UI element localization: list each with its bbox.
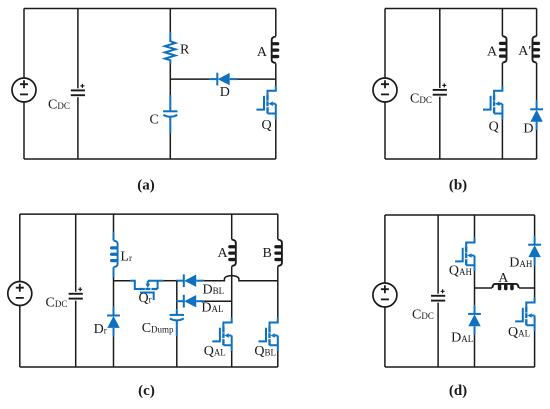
capacitor CDC (a) xyxy=(71,84,85,95)
wire: panel (b) right edge bottom xyxy=(536,130,538,159)
svg-text:(d): (d) xyxy=(449,383,467,399)
svg-text:R: R xyxy=(180,42,190,57)
wire: panel (d) phase wire left xyxy=(475,287,493,289)
diode Dr xyxy=(107,307,120,336)
wire: panel (b) A branch top xyxy=(501,9,503,36)
wire: panel (a) right edge top xyxy=(275,9,277,37)
wire: panel (b) left branch upper xyxy=(384,9,386,79)
wire: panel (a) bottom rail xyxy=(24,158,276,160)
wire: panel (a) right edge bottom xyxy=(275,119,277,159)
capacitor Cdump xyxy=(170,315,184,321)
wire: capacitor C top lead blue xyxy=(169,95,171,111)
wire: DAL row right black xyxy=(204,300,232,302)
wire: panel (b) right edge top xyxy=(536,9,538,36)
wire: panel (a) R branch top black xyxy=(169,9,171,33)
wire: panel (a) Cdc branch lower xyxy=(77,97,79,159)
svg-text:(b): (b) xyxy=(449,178,467,194)
svg-text:B: B xyxy=(263,246,272,261)
capacitor CDC (c) xyxy=(69,287,83,298)
capacitor CDC (d) xyxy=(431,289,445,300)
wire: Lr bottom lead blue xyxy=(113,267,115,277)
inductor A (a) xyxy=(272,37,280,64)
svg-text:A: A xyxy=(257,45,268,60)
mosfet Q (a) xyxy=(256,86,275,119)
wire: panel (c) B branch bottom xyxy=(277,351,279,367)
wire: Cdump branch bottom black xyxy=(176,336,178,367)
wire: panel (c) bottom rail xyxy=(20,366,278,368)
inductor B (c) xyxy=(274,240,282,267)
wire: Cdump bottom lead blue xyxy=(176,321,178,336)
voltage source V1 (d) xyxy=(373,283,397,307)
wire: junction row right black with hop over A branch xyxy=(204,276,278,281)
inductor Lr xyxy=(110,241,118,268)
svg-text:C: C xyxy=(150,112,159,127)
capacitor CDC (b) xyxy=(433,83,447,94)
capacitor C (a) xyxy=(163,111,177,117)
wire: panel (a) Cdc branch upper xyxy=(77,9,79,89)
wire: panel (b) A branch mid xyxy=(501,63,503,86)
wire: panel (b) left branch lower xyxy=(384,102,386,159)
svg-text:Q: Q xyxy=(489,120,499,135)
wire: panel (d) left branch lower xyxy=(384,307,386,367)
wire: panel (d) left branch upper xyxy=(384,215,386,283)
wire: panel (b) Cdc branch lower xyxy=(439,97,441,159)
wire: panel (d) Cdc branch lower xyxy=(437,303,439,367)
diode D (a) xyxy=(210,73,238,86)
svg-text:Q: Q xyxy=(262,118,272,133)
voltage source V1 (a) xyxy=(12,78,36,102)
wire: panel (d) mid branch bottom xyxy=(474,335,476,367)
wire: panel (d) phase wire right xyxy=(519,287,535,289)
wire: junction row left black xyxy=(114,280,131,282)
svg-text:A: A xyxy=(498,271,509,286)
wire: panel (d) Cdc branch upper xyxy=(437,215,439,294)
svg-text:A: A xyxy=(218,246,229,261)
wire: panel (a) top rail xyxy=(24,8,276,10)
wire: panel (d) top rail xyxy=(385,214,535,216)
wire: panel (c) top rail xyxy=(20,213,278,215)
wire: panel (c) B branch top xyxy=(277,214,279,239)
wire: panel (c) Cdc branch lower xyxy=(75,301,77,367)
wire: Cdump top lead blue xyxy=(176,309,178,314)
inductor A (d) xyxy=(492,284,519,290)
mosfet QAH (d) xyxy=(455,238,474,271)
wire: panel (a) mid wire right xyxy=(238,78,276,80)
mosfet Qr xyxy=(130,281,163,300)
wire: Lr top lead blue xyxy=(113,232,115,240)
inductor A (c) xyxy=(228,240,236,267)
svg-text:D: D xyxy=(220,85,230,100)
wire: panel (c) Lr branch top black xyxy=(113,214,115,232)
svg-text:A′: A′ xyxy=(518,44,531,59)
diode DAL (d) xyxy=(468,305,481,334)
voltage source V1 (b) xyxy=(373,78,397,102)
wire: panel (a) mid wire left xyxy=(170,78,210,80)
wire: panel (a) right edge mid xyxy=(275,63,277,86)
mosfet QBL (c) xyxy=(258,318,277,351)
wire: panel (a) R-C branch middle black xyxy=(169,65,171,96)
wire: panel (c) Cdc branch upper xyxy=(75,214,77,292)
diode D (b) xyxy=(530,101,543,130)
wire: panel (d) right edge middle xyxy=(534,265,536,297)
svg-text:A: A xyxy=(487,45,498,60)
wire: panel (b) A branch bottom xyxy=(501,119,503,159)
wire: panel (d) mid branch top xyxy=(474,215,476,238)
wire: panel (a) left branch upper xyxy=(23,9,25,79)
mosfet QAL (d) xyxy=(515,298,534,331)
wire: panel (b) top rail xyxy=(385,8,537,10)
svg-text:D: D xyxy=(523,122,533,137)
wire: panel (d) mid branch middle xyxy=(474,271,476,305)
wire: panel (b) right edge mid xyxy=(536,63,538,101)
svg-text:(c): (c) xyxy=(138,383,155,399)
wire: panel (c) left branch upper xyxy=(19,214,21,282)
diode DBL xyxy=(176,274,204,287)
inductor A (b) xyxy=(499,36,507,63)
wire: panel (c) A branch mid xyxy=(231,266,233,318)
wire: junction row mid black xyxy=(163,280,176,282)
wire: Lr to junction black xyxy=(113,277,115,307)
wire: panel (d) bottom rail xyxy=(385,366,535,368)
wire: panel (c) A branch bottom xyxy=(231,351,233,367)
inductor A' (b) xyxy=(532,36,540,63)
diode DAL xyxy=(176,295,204,308)
mosfet Q (b) xyxy=(483,86,502,119)
resistor R xyxy=(165,32,176,64)
wire: capacitor C bottom lead blue xyxy=(169,117,171,133)
svg-text:(a): (a) xyxy=(137,178,155,194)
wire: panel (b) Cdc branch upper xyxy=(439,9,441,88)
mosfet QAL (c) xyxy=(212,318,231,351)
voltage source V1 (c) xyxy=(8,282,32,306)
wire: panel (a) C branch bottom black xyxy=(169,133,171,159)
wire: panel (c) Dr branch bottom black xyxy=(113,336,115,367)
wire: panel (c) A branch top xyxy=(231,214,233,239)
wire: panel (d) right edge top xyxy=(534,215,536,236)
diode DAH (d) xyxy=(528,236,541,265)
wire: Cdump branch top black xyxy=(176,281,178,310)
wire: panel (b) bottom rail xyxy=(385,158,537,160)
wire: panel (c) left branch lower xyxy=(19,305,21,367)
wire: panel (c) B branch mid xyxy=(277,266,279,318)
wire: panel (a) left branch lower xyxy=(23,102,25,159)
wire: panel (d) right edge bottom xyxy=(534,331,536,367)
